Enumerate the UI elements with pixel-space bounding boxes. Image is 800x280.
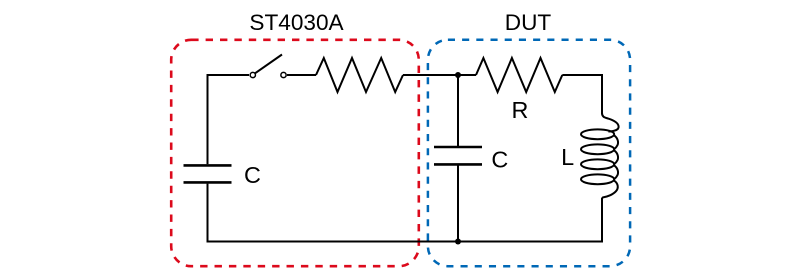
svg-text:ST4030A: ST4030A — [249, 10, 344, 35]
resistor (source output) zigzag — [316, 58, 403, 92]
wire left vertical upper — [207, 74, 209, 164]
wire bottom horizontal — [207, 241, 604, 243]
wire top-left horizontal — [208, 74, 250, 76]
svg-text:R: R — [512, 97, 529, 123]
capacitor C source bottom plate — [184, 181, 232, 184]
inductor L bottom hook — [602, 180, 618, 199]
inductor L turn connector 1-2 — [614, 135, 618, 149]
inductor L turn 3 — [581, 159, 614, 169]
capacitor C DUT top plate — [434, 146, 482, 149]
svg-text:L: L — [561, 144, 574, 170]
svg-text:C: C — [491, 146, 508, 172]
capacitor C source top plate — [184, 164, 232, 167]
capacitor C DUT: vertical wire upper — [457, 75, 459, 146]
wire R to top-right corner — [562, 74, 603, 76]
instrument enclosure box ST4030A — [171, 40, 419, 266]
capacitor C DUT: vertical wire lower — [457, 166, 459, 243]
switch S contact circle right — [281, 72, 286, 77]
node B junction dot bottom — [455, 239, 461, 245]
capacitor C source: vertical wire lower — [207, 184, 209, 243]
inductor L turn 1 — [581, 129, 614, 139]
wire right vertical into inductor — [601, 74, 603, 114]
wire switch to source resistor — [287, 74, 316, 76]
switch S contact circle left — [250, 72, 255, 77]
capacitor C DUT bottom plate — [434, 163, 482, 166]
inductor L turn 4 — [581, 174, 614, 184]
wire resistor to node A — [403, 74, 476, 76]
resistor R zigzag (DUT) — [476, 58, 562, 92]
inductor L turn connector 3-4 — [614, 165, 618, 179]
inductor L turn 2 — [581, 144, 614, 154]
inductor L top hook — [602, 113, 619, 132]
inductor L turn connector 2-3 — [614, 150, 618, 164]
wire right vertical lower — [601, 198, 603, 243]
DUT enclosure box — [428, 40, 630, 266]
svg-text:C: C — [244, 162, 261, 188]
node A junction dot top — [455, 72, 461, 78]
switch S lever — [255, 55, 282, 74]
svg-text:DUT: DUT — [505, 10, 552, 35]
